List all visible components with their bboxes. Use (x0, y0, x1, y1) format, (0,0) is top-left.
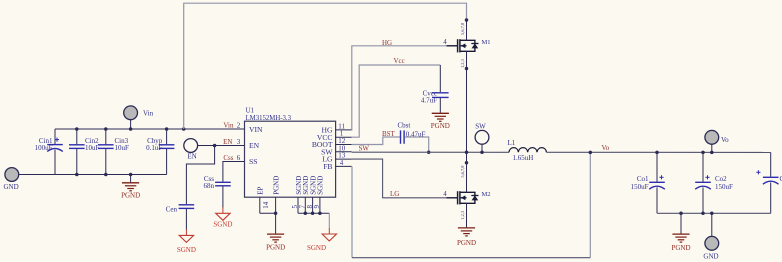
ground PGND (output) (671, 213, 690, 252)
capacitor Cen (166, 205, 194, 230)
svg-text:Vcc: Vcc (394, 57, 405, 65)
junction dots U1 bottom (274, 212, 322, 216)
capacitor Css 68n (204, 175, 231, 208)
wire Vo flag drop (711, 144, 713, 152)
ground PGND (M2) (457, 228, 476, 247)
transistor M1 (443, 22, 490, 68)
ground PGND (input rail) (121, 175, 140, 200)
svg-text:10uF: 10uF (85, 144, 100, 152)
svg-text:SGND: SGND (177, 246, 196, 254)
svg-text:Cen: Cen (166, 206, 178, 214)
svg-text:4: 4 (443, 190, 447, 198)
U1 bottom pin names (257, 176, 325, 195)
U1 left pin names (249, 125, 263, 166)
svg-text:EN: EN (187, 153, 196, 161)
svg-text:GND: GND (703, 253, 718, 261)
svg-text:VIN: VIN (249, 125, 263, 134)
input flag EN (184, 139, 198, 161)
U1 right pin stubs (336, 130, 352, 167)
wire EN to Cen (186, 146, 214, 205)
svg-text:SS: SS (249, 157, 257, 166)
svg-text:150uF: 150uF (631, 183, 649, 191)
ground SGND (Css) (213, 207, 232, 228)
capacitor Cvcc 4.7uF (421, 65, 449, 113)
capacitor Co3 (clipped) (756, 152, 782, 213)
wire U1 SS to Css (223, 162, 245, 182)
U1 bottom pin stubs EP PGND (260, 197, 276, 213)
svg-text:HG: HG (382, 39, 392, 47)
svg-text:LG: LG (390, 190, 399, 198)
junction dots Vo rail (589, 151, 714, 155)
wire M2 source (466, 203, 468, 227)
svg-text:M2: M2 (482, 191, 491, 198)
svg-text:4.7uF: 4.7uF (421, 97, 437, 105)
wire SW flag drop (481, 144, 483, 152)
capacitor Cbst 0.47uF (398, 121, 426, 143)
svg-text:EN: EN (249, 141, 260, 150)
wire Vin flag drop (130, 120, 132, 129)
junction dots input top rail (75, 127, 185, 131)
wire Cbst to SW (405, 137, 429, 152)
svg-text:LM3152MH-3.3: LM3152MH-3.3 (246, 115, 292, 122)
svg-text:Cbst: Cbst (398, 121, 411, 129)
junction dots output bottom rail (679, 212, 713, 216)
ground PGND (U1) (266, 213, 285, 251)
op-amp U1 LM3152MH-3.3 body (245, 107, 336, 198)
wire HG net (352, 39, 447, 130)
svg-text:Vo: Vo (602, 144, 610, 152)
svg-text:EP: EP (257, 187, 265, 195)
svg-text:14: 14 (262, 201, 270, 209)
wire output bottom rail (657, 212, 771, 214)
capacitor Co1 150uF (631, 152, 665, 213)
wire BST net (352, 130, 400, 144)
svg-text:PGND: PGND (272, 176, 280, 195)
U1 bottom pin stubs SGND (291, 197, 329, 213)
svg-text:SGND: SGND (307, 244, 326, 252)
svg-text:PGND: PGND (431, 122, 450, 130)
svg-text:SW: SW (359, 145, 370, 153)
svg-text:Css: Css (223, 154, 233, 162)
svg-text:Vin: Vin (223, 122, 234, 130)
svg-text:PGND: PGND (266, 244, 285, 252)
svg-text:L1: L1 (508, 139, 516, 147)
svg-text:EN: EN (223, 138, 232, 146)
svg-text:Vo: Vo (721, 136, 729, 144)
U1 pin 3 label EN (223, 138, 241, 146)
svg-text:4: 4 (340, 159, 344, 167)
ground SGND (Cen) (177, 229, 196, 254)
svg-text:M1: M1 (482, 39, 491, 46)
capacitor Cin1 100uF (35, 129, 63, 175)
wire input top rail (Vin net) (55, 128, 245, 130)
capacitor Cbyp 0.1uF (146, 129, 174, 175)
junction dots input bottom rail (75, 173, 132, 177)
svg-text:BST: BST (382, 130, 396, 138)
svg-text:3: 3 (237, 138, 241, 146)
wire LG net (352, 159, 447, 198)
svg-text:0.1uF: 0.1uF (146, 144, 162, 152)
svg-text:PGND: PGND (457, 239, 476, 247)
wire Vin loop to M1 drain (184, 3, 467, 129)
inductor L1 1.65uH (508, 139, 547, 162)
capacitor Cin2 10uF (69, 129, 100, 175)
svg-text:SGND: SGND (317, 176, 325, 195)
svg-text:PGND: PGND (121, 192, 140, 200)
wire M2 drain lead (465, 152, 469, 192)
svg-text:U1: U1 (246, 107, 255, 115)
U1 pin 2 label Vin (223, 122, 240, 130)
ground SGND (U1) (307, 228, 337, 252)
svg-text:6: 6 (237, 154, 241, 162)
U1 right pin numbers (338, 122, 346, 167)
wire Vcc net (352, 57, 441, 137)
wire M1 source to SW (465, 51, 469, 152)
ground PGND (Cvcc) (431, 113, 450, 130)
ground flag GND (output) (703, 213, 718, 260)
svg-text:SW: SW (475, 123, 486, 131)
svg-text:FB: FB (323, 162, 332, 171)
wire FB sense loop (352, 152, 590, 257)
junction Cbst-SW (427, 150, 431, 154)
capacitor Cin3 10uF (98, 129, 129, 175)
ground flag GND (input) (4, 168, 19, 191)
svg-text:1.65uH: 1.65uH (513, 154, 534, 162)
transistor M2 (443, 165, 490, 220)
svg-text:2: 2 (237, 122, 241, 130)
svg-text:Vin: Vin (143, 110, 154, 118)
junction node EN (213, 144, 217, 148)
wire U1 SGND descent (328, 213, 330, 228)
wire M1 drain lead (465, 18, 469, 40)
svg-text:PGND: PGND (671, 244, 690, 252)
wire Vo rail (546, 144, 770, 153)
svg-text:4: 4 (443, 38, 447, 46)
U1 pin 6 label Css (223, 154, 240, 162)
capacitor Co2 150uF (695, 152, 733, 213)
svg-text:150uF: 150uF (715, 183, 733, 191)
svg-text:9: 9 (313, 205, 321, 209)
svg-text:100uF: 100uF (35, 144, 53, 152)
svg-text:GND: GND (4, 183, 19, 191)
U1 right pin names (312, 126, 334, 172)
junction dots SW line (465, 151, 484, 155)
svg-text:SGND: SGND (213, 221, 232, 229)
power flag Vin (124, 106, 154, 120)
power flag Vo (705, 130, 729, 144)
wire input bottom rail (19, 174, 167, 176)
svg-text:68n: 68n (204, 182, 215, 190)
wire EN to U1 (198, 145, 245, 147)
switch node flag SW (475, 123, 489, 145)
svg-text:10uF: 10uF (115, 144, 130, 152)
wire SW run (352, 145, 509, 153)
